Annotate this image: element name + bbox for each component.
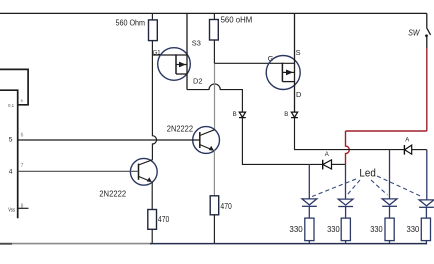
svg-text:B: B (233, 111, 237, 118)
wire B1 down then right to diode A1 (242, 118, 322, 165)
resistor R2 560 oHM (213, 13, 215, 19)
svg-text:330: 330 (327, 225, 340, 234)
mosfet Q1 main vertical (S3 to D2 through circle) (186, 13, 188, 89)
dashed pointer to LED D2 (348, 180, 361, 195)
wire switch top lead (426, 13, 428, 27)
mosfet Q2 circle (266, 56, 300, 90)
transistor Q4 2N2222 circle (130, 158, 157, 185)
wire R5 to ground rail (308, 241, 310, 244)
wire LED branch 4 right side (426, 150, 428, 200)
wire R7 to ground rail (389, 241, 391, 244)
svg-text:SW: SW (408, 28, 420, 37)
pin 6 wire to Q3 base (18, 139, 200, 141)
wire gate to mosfet Q2 (214, 62, 294, 64)
transistor Q3 base bar (199, 132, 201, 148)
transistor Q3 2N2222 circle (193, 127, 220, 154)
wire B2 down then right along y=149.6 to diode A2 (295, 118, 405, 150)
wire LED D4 cathode to R8 (425, 207, 427, 218)
LED D4 (419, 200, 434, 206)
svg-text:D: D (296, 90, 301, 99)
wire R8 to ground rail (425, 241, 427, 244)
ground rail gray left (0, 243, 152, 245)
pin 8 Vss stub (18, 207, 29, 209)
ground rail dark right (150, 243, 427, 245)
wire LED branch 3 tap (389, 150, 391, 199)
wire LED D1 cathode to R5 (308, 206, 310, 218)
wire gate G1 to mosfet (152, 54, 187, 56)
svg-text:330: 330 (370, 225, 383, 234)
svg-text:2N2222: 2N2222 (99, 189, 126, 198)
wire A1 to red junction (332, 163, 346, 165)
wire R2 bottom to junction (213, 40, 215, 63)
transistor Q4 collector diagonal (139, 160, 153, 165)
wire junction down to Q3 collector (gray) (214, 63, 216, 130)
wire red from switch down right side (426, 48, 428, 131)
dashed pointer to LED D4 (377, 176, 422, 197)
svg-text:470: 470 (158, 215, 170, 224)
svg-text:8: 8 (21, 203, 24, 209)
dashed pointer to LED D3 (371, 180, 388, 195)
svg-text:7: 7 (21, 163, 24, 169)
svg-text:S3: S3 (192, 39, 201, 48)
mosfet Q1 gate plate (175, 54, 177, 74)
mosfet Q2 main vertical (S to D through circle) (294, 13, 296, 112)
LED D2 (338, 199, 353, 205)
IC U1 outer box top-left (0, 69, 28, 104)
mosfet Q2 gate plate (281, 63, 283, 82)
svg-text:Vss: Vss (8, 208, 15, 214)
svg-text:560 Ohm: 560 Ohm (116, 18, 146, 27)
mosfet Q1 bottom stub (176, 73, 187, 75)
transistor Q3 collector diagonal (200, 130, 215, 136)
transistor Q4 emitter diagonal with arrow (139, 176, 151, 181)
svg-text:330: 330 (407, 225, 420, 234)
resistor R6 330 (341, 218, 350, 241)
svg-text:0.1: 0.1 (8, 103, 15, 108)
wire Q4 emitter down (151, 182, 153, 210)
wire switch bottom lead (black part) (426, 37, 428, 48)
LED D1 (302, 199, 317, 205)
wire LED D2 cathode to R6 (345, 207, 347, 219)
resistor R4 470 (210, 196, 219, 215)
wire A2 to right red junction (412, 149, 427, 151)
ground rail dark stub far left (0, 243, 12, 245)
resistor R8 330 (421, 218, 430, 241)
diode B2 (291, 112, 297, 117)
wire R3 bottom to rail (151, 229, 153, 243)
mosfet Q1 bulk arrow (176, 64, 187, 66)
svg-text:2N2222: 2N2222 (167, 125, 194, 134)
svg-text:560 oHM: 560 oHM (221, 16, 253, 25)
svg-text:6: 6 (21, 133, 24, 139)
mosfet Q1 circle (158, 48, 191, 81)
switch SW blade (427, 28, 431, 35)
svg-text:D2: D2 (193, 77, 202, 86)
diode A1 (322, 160, 324, 170)
wire R6 to ground rail (345, 241, 347, 244)
resistor R3 470 (148, 210, 157, 230)
wire D2 down-right to diode B1, hop over gray column (187, 84, 242, 112)
svg-text:4: 4 (9, 169, 13, 176)
wire Q3 emitter down (gray) (213, 150, 215, 195)
wire LED branch 2 from red junction (345, 164, 347, 199)
transistor Q3 emitter diagonal with arrow (200, 145, 213, 150)
wire red vertical with hop over black wire (346, 131, 350, 164)
switch SW contact dot (425, 34, 428, 37)
mosfet Q2 bulk arrow (282, 71, 294, 73)
transistor Q4 base bar (138, 164, 140, 180)
mosfet Q2 bottom stub (282, 81, 294, 83)
resistor R5 330 (305, 218, 314, 241)
svg-text:Led: Led (359, 168, 375, 180)
dashed pointer to LED D1 (312, 179, 356, 197)
wire LED D3 cathode to R7 (389, 206, 391, 218)
resistor R1 560 Ohm (151, 13, 153, 20)
wire R4 bottom to rail (213, 215, 215, 244)
wire R1 bottom to G1 junction and down column with hop over base wire (152, 41, 156, 160)
wire LED branch 1 tap (308, 164, 310, 198)
wire top supply rail (0, 12, 427, 14)
diode B1 (239, 112, 245, 117)
diode A2 (403, 145, 405, 155)
wire red horizontal (346, 130, 427, 132)
pin 7 wire to Q4 base (18, 170, 139, 172)
IC U1 body edge (0, 90, 18, 218)
svg-text:5: 5 (9, 136, 13, 143)
svg-text:330: 330 (289, 225, 303, 234)
LED D3 (382, 199, 397, 205)
svg-text:S: S (296, 48, 301, 57)
svg-text:470: 470 (220, 202, 232, 211)
resistor R7 330 (385, 218, 394, 241)
svg-text:B: B (284, 111, 288, 118)
